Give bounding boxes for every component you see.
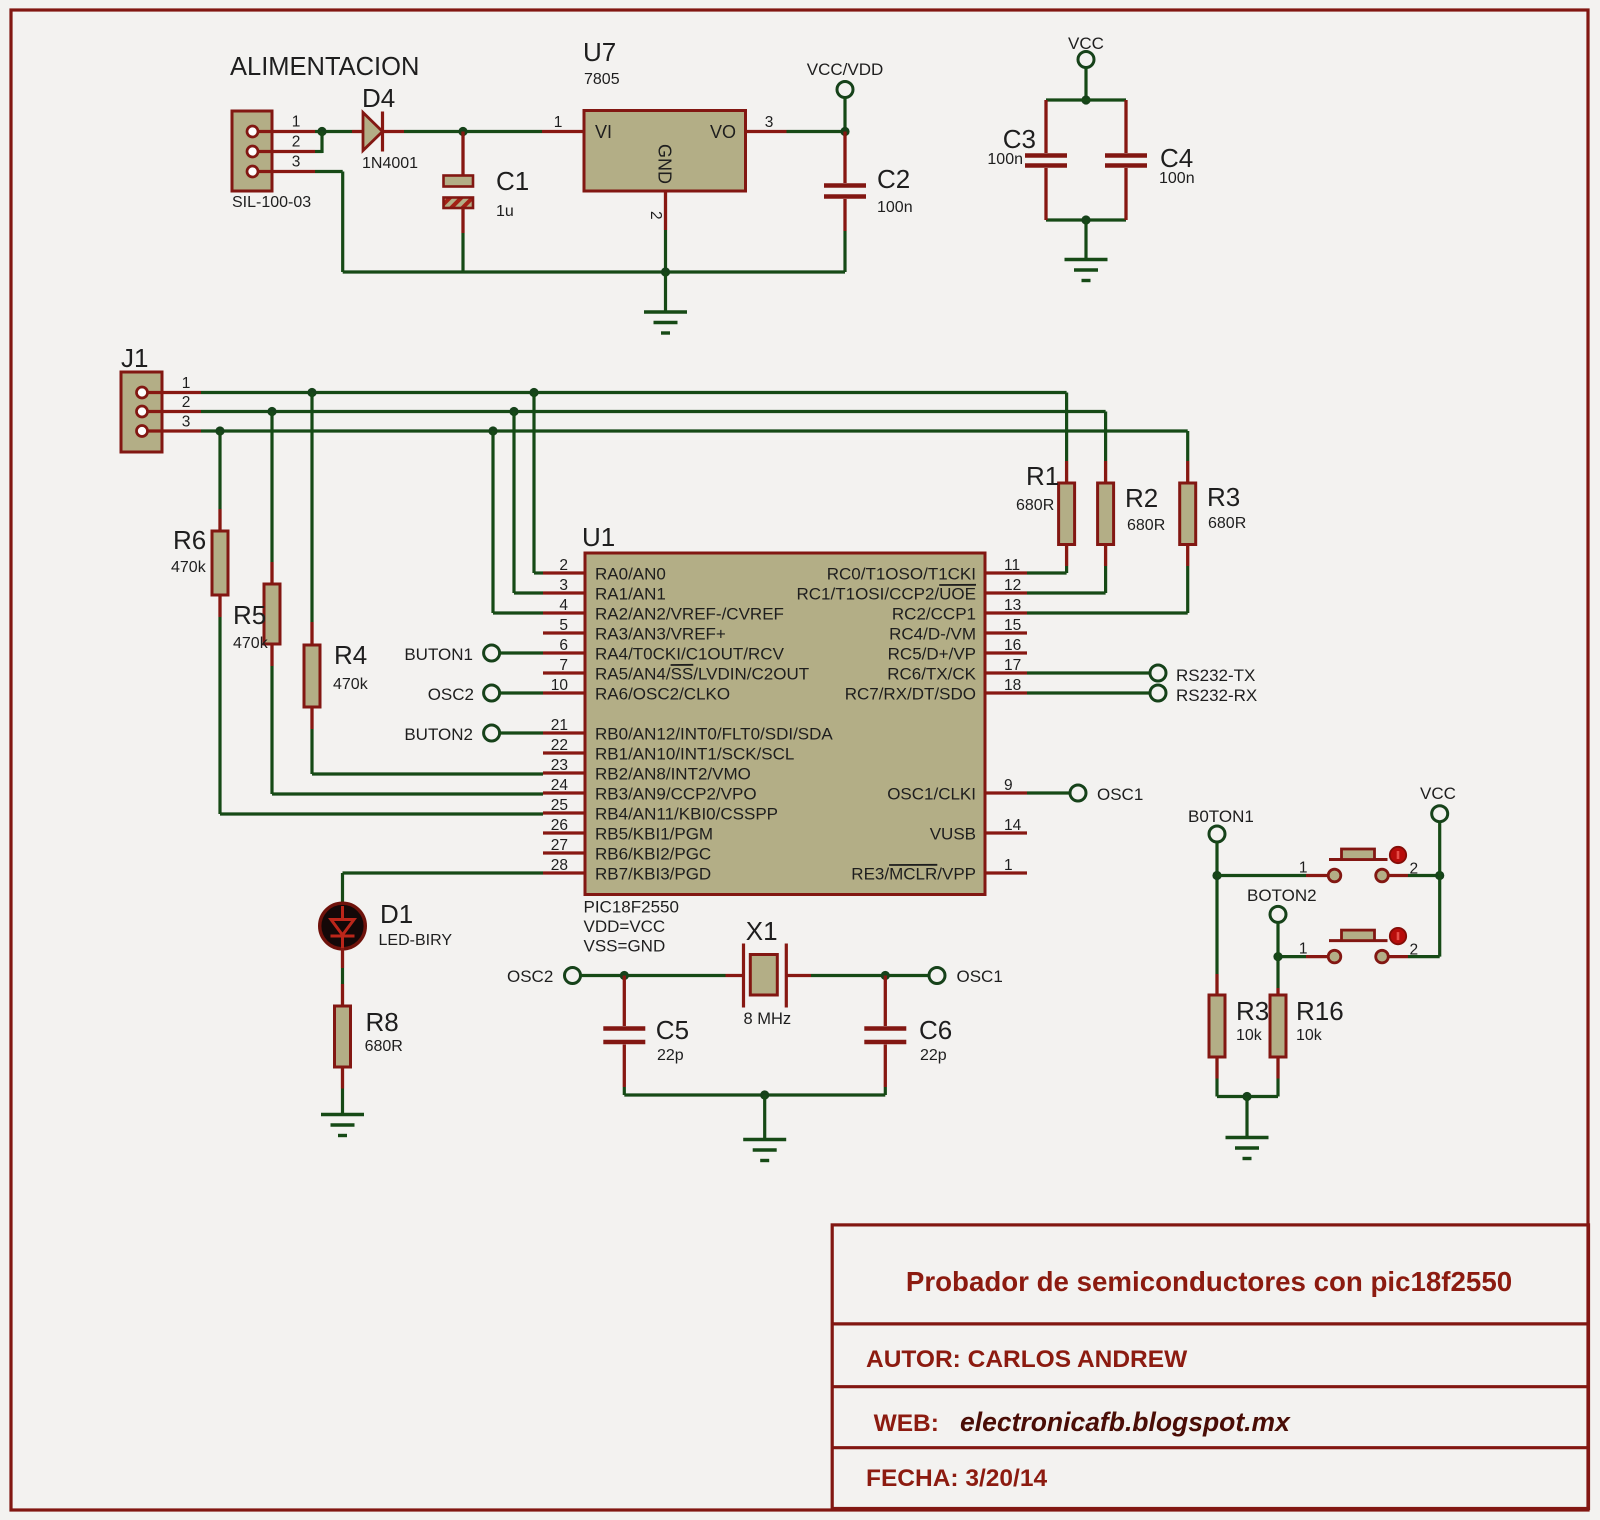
svg-text:VSS=GND: VSS=GND bbox=[584, 937, 666, 956]
svg-text:X1: X1 bbox=[746, 916, 778, 946]
svg-text:13: 13 bbox=[1004, 597, 1021, 614]
svg-text:RB6/KBI2/PGC: RB6/KBI2/PGC bbox=[595, 845, 711, 864]
svg-text:680R: 680R bbox=[365, 1038, 403, 1055]
svg-text:R3: R3 bbox=[1236, 996, 1269, 1026]
svg-text:24: 24 bbox=[551, 777, 569, 794]
svg-text:R8: R8 bbox=[366, 1007, 399, 1037]
svg-text:RS232-RX: RS232-RX bbox=[1176, 686, 1257, 705]
svg-text:RA0/AN0: RA0/AN0 bbox=[595, 565, 666, 584]
svg-text:GND: GND bbox=[655, 144, 675, 184]
svg-text:5: 5 bbox=[559, 617, 568, 634]
svg-text:100n: 100n bbox=[987, 151, 1023, 168]
svg-text:VCC: VCC bbox=[1420, 784, 1456, 803]
svg-text:AUTOR: CARLOS ANDREW: AUTOR: CARLOS ANDREW bbox=[866, 1346, 1188, 1373]
svg-text:10k: 10k bbox=[1236, 1027, 1263, 1044]
svg-text:D4: D4 bbox=[362, 83, 395, 113]
svg-text:14: 14 bbox=[1004, 817, 1022, 834]
svg-text:12: 12 bbox=[1004, 577, 1021, 594]
svg-text:J1: J1 bbox=[121, 343, 148, 373]
svg-text:D1: D1 bbox=[380, 899, 413, 929]
svg-text:RA6/OSC2/CLKO: RA6/OSC2/CLKO bbox=[595, 685, 730, 704]
svg-text:U7: U7 bbox=[583, 37, 616, 67]
svg-text:Probador de semiconductores co: Probador de semiconductores con pic18f25… bbox=[906, 1266, 1512, 1297]
svg-text:4: 4 bbox=[559, 597, 568, 614]
svg-text:RS232-TX: RS232-TX bbox=[1176, 666, 1255, 685]
svg-text:15: 15 bbox=[1004, 617, 1021, 634]
svg-text:C2: C2 bbox=[877, 164, 910, 194]
svg-text:470k: 470k bbox=[171, 559, 207, 576]
svg-text:VO: VO bbox=[710, 122, 736, 142]
svg-text:RB7/KBI3/PGD: RB7/KBI3/PGD bbox=[595, 865, 711, 884]
svg-text:1u: 1u bbox=[496, 203, 514, 220]
svg-text:R5: R5 bbox=[233, 600, 266, 630]
svg-text:C3: C3 bbox=[1003, 124, 1036, 154]
svg-text:RC1/T1OSI/CCP2/UOE: RC1/T1OSI/CCP2/UOE bbox=[797, 585, 977, 604]
svg-text:BUTON2: BUTON2 bbox=[404, 725, 473, 744]
svg-text:6: 6 bbox=[559, 637, 568, 654]
svg-text:2: 2 bbox=[559, 557, 568, 574]
svg-text:OSC2: OSC2 bbox=[507, 967, 553, 986]
svg-text:8 MHz: 8 MHz bbox=[744, 1010, 792, 1028]
svg-text:RB3/AN9/CCP2/VPO: RB3/AN9/CCP2/VPO bbox=[595, 785, 757, 804]
svg-text:BOTON2: BOTON2 bbox=[1247, 886, 1317, 905]
svg-text:17: 17 bbox=[1004, 657, 1021, 674]
svg-text:3: 3 bbox=[292, 154, 301, 171]
svg-text:RB0/AN12/INT0/FLT0/SDI/SDA: RB0/AN12/INT0/FLT0/SDI/SDA bbox=[595, 725, 833, 744]
svg-text:R4: R4 bbox=[334, 640, 367, 670]
svg-text:RC2/CCP1: RC2/CCP1 bbox=[892, 605, 976, 624]
svg-text:11: 11 bbox=[1004, 557, 1020, 574]
svg-text:ALIMENTACION: ALIMENTACION bbox=[230, 53, 419, 81]
svg-text:RA3/AN3/VREF+: RA3/AN3/VREF+ bbox=[595, 625, 726, 644]
svg-text:22: 22 bbox=[551, 737, 568, 754]
svg-text:RC7/RX/DT/SDO: RC7/RX/DT/SDO bbox=[845, 685, 976, 704]
svg-text:27: 27 bbox=[551, 837, 568, 854]
svg-text:OSC1/CLKI: OSC1/CLKI bbox=[887, 785, 976, 804]
svg-text:23: 23 bbox=[551, 757, 568, 774]
svg-text:LED-BIRY: LED-BIRY bbox=[379, 932, 453, 949]
svg-text:21: 21 bbox=[551, 717, 568, 734]
svg-text:7805: 7805 bbox=[584, 71, 620, 88]
svg-text:RA2/AN2/VREF-/CVREF: RA2/AN2/VREF-/CVREF bbox=[595, 605, 784, 624]
svg-text:680R: 680R bbox=[1208, 515, 1246, 532]
svg-text:RC6/TX/CK: RC6/TX/CK bbox=[887, 665, 976, 684]
svg-text:RE3/MCLR/VPP: RE3/MCLR/VPP bbox=[851, 865, 976, 884]
svg-text:OSC1: OSC1 bbox=[1097, 785, 1143, 804]
svg-text:C6: C6 bbox=[919, 1015, 952, 1045]
svg-text:2: 2 bbox=[182, 394, 191, 411]
svg-text:470k: 470k bbox=[333, 676, 369, 693]
svg-text:470k: 470k bbox=[233, 635, 269, 652]
svg-text:R2: R2 bbox=[1125, 483, 1158, 513]
svg-text:electronicafb.blogspot.mx: electronicafb.blogspot.mx bbox=[960, 1407, 1291, 1437]
svg-text:3: 3 bbox=[559, 577, 568, 594]
svg-text:C4: C4 bbox=[1160, 143, 1193, 173]
svg-text:1N4001: 1N4001 bbox=[362, 155, 418, 172]
svg-text:OSC1: OSC1 bbox=[957, 967, 1003, 986]
svg-text:28: 28 bbox=[551, 857, 568, 874]
svg-text:RB5/KBI1/PGM: RB5/KBI1/PGM bbox=[595, 825, 713, 844]
svg-text:1: 1 bbox=[554, 114, 563, 131]
svg-text:2: 2 bbox=[647, 211, 664, 220]
svg-text:R16: R16 bbox=[1296, 996, 1344, 1026]
svg-text:VDD=VCC: VDD=VCC bbox=[584, 917, 666, 936]
svg-text:RC5/D+/VP: RC5/D+/VP bbox=[888, 645, 976, 664]
svg-text:RC0/T1OSO/T1CKI: RC0/T1OSO/T1CKI bbox=[827, 565, 976, 584]
svg-text:100n: 100n bbox=[877, 199, 913, 216]
svg-text:16: 16 bbox=[1004, 637, 1021, 654]
svg-text:3: 3 bbox=[182, 414, 191, 431]
svg-text:SIL-100-03: SIL-100-03 bbox=[232, 194, 311, 211]
svg-text:R3: R3 bbox=[1207, 482, 1240, 512]
svg-text:C5: C5 bbox=[656, 1015, 689, 1045]
svg-text:PIC18F2550: PIC18F2550 bbox=[584, 898, 679, 917]
svg-text:FECHA: 3/20/14: FECHA: 3/20/14 bbox=[866, 1465, 1047, 1492]
svg-text:R6: R6 bbox=[173, 525, 206, 555]
svg-text:1: 1 bbox=[182, 375, 191, 392]
svg-text:9: 9 bbox=[1004, 777, 1013, 794]
svg-text:22p: 22p bbox=[657, 1047, 684, 1064]
svg-text:RB2/AN8/INT2/VMO: RB2/AN8/INT2/VMO bbox=[595, 765, 751, 784]
svg-text:26: 26 bbox=[551, 817, 568, 834]
svg-text:BUTON1: BUTON1 bbox=[404, 645, 473, 664]
svg-text:18: 18 bbox=[1004, 677, 1021, 694]
svg-text:3: 3 bbox=[765, 114, 774, 131]
svg-text:1: 1 bbox=[1299, 860, 1308, 877]
svg-text:680R: 680R bbox=[1016, 497, 1054, 514]
svg-text:7: 7 bbox=[559, 657, 568, 674]
svg-text:1: 1 bbox=[1004, 857, 1013, 874]
svg-text:2: 2 bbox=[292, 134, 301, 151]
svg-text:R1: R1 bbox=[1026, 461, 1059, 491]
svg-text:VI: VI bbox=[595, 122, 612, 142]
svg-text:B0TON1: B0TON1 bbox=[1188, 807, 1254, 826]
svg-text:25: 25 bbox=[551, 797, 568, 814]
svg-text:U1: U1 bbox=[582, 522, 615, 552]
svg-text:2: 2 bbox=[1410, 942, 1419, 959]
svg-text:RB4/AN11/KBI0/CSSPP: RB4/AN11/KBI0/CSSPP bbox=[595, 805, 778, 824]
svg-text:680R: 680R bbox=[1127, 517, 1165, 534]
svg-text:RB1/AN10/INT1/SCK/SCL: RB1/AN10/INT1/SCK/SCL bbox=[595, 745, 794, 764]
svg-text:WEB:: WEB: bbox=[874, 1410, 939, 1437]
svg-text:VCC/VDD: VCC/VDD bbox=[807, 60, 884, 79]
svg-text:C1: C1 bbox=[496, 166, 529, 196]
svg-text:RA1/AN1: RA1/AN1 bbox=[595, 585, 666, 604]
svg-text:RA4/T0CKI/C1OUT/RCV: RA4/T0CKI/C1OUT/RCV bbox=[595, 645, 785, 664]
svg-text:1: 1 bbox=[292, 114, 301, 131]
svg-text:10k: 10k bbox=[1296, 1027, 1323, 1044]
svg-text:22p: 22p bbox=[920, 1047, 947, 1064]
svg-text:100n: 100n bbox=[1159, 170, 1195, 187]
svg-text:10: 10 bbox=[551, 677, 569, 694]
svg-text:VUSB: VUSB bbox=[930, 825, 976, 844]
svg-text:OSC2: OSC2 bbox=[428, 685, 474, 704]
svg-text:RA5/AN4/SS/LVDIN/C2OUT: RA5/AN4/SS/LVDIN/C2OUT bbox=[595, 665, 809, 684]
svg-text:RC4/D-/VM: RC4/D-/VM bbox=[889, 625, 976, 644]
